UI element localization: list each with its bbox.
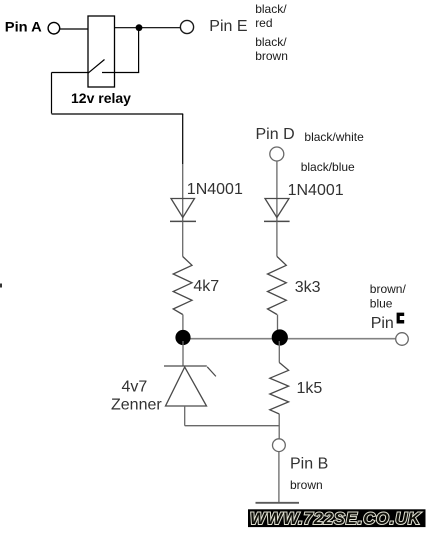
svg-text:Pin B: Pin B (290, 456, 328, 473)
diode D1 1N4001 (170, 199, 196, 222)
wire down to D1 (black part) (182, 114, 184, 164)
resistor value label 1k5 (297, 380, 323, 397)
svg-text:1N4001: 1N4001 (187, 181, 243, 198)
svg-text:brown: brown (255, 49, 288, 63)
zener diode ZD1 cathode bar (164, 366, 216, 376)
svg-text:Pin A: Pin A (5, 18, 42, 34)
svg-text:black/white: black/white (304, 130, 364, 144)
svg-text:Pin: Pin (371, 315, 394, 332)
wire relay to Pin E (115, 27, 181, 29)
node Pin A label (5, 18, 42, 34)
relay switch contact arm (88, 60, 105, 74)
terminal Pin D (270, 147, 284, 161)
zener diode ZD1 triangle (166, 367, 207, 406)
wire node to R 1k5 (278, 341, 280, 363)
diode D2 1N4001 (264, 199, 290, 222)
svg-text:brown/: brown/ (370, 282, 407, 296)
svg-text:red: red (255, 16, 272, 30)
resistor R 3k3 (268, 257, 287, 315)
wire label black/brown (255, 35, 288, 63)
svg-text:4v7: 4v7 (122, 378, 148, 395)
wire label black/blue (301, 160, 355, 174)
terminal Pin E (180, 20, 193, 33)
wire D2 to R 3k3 (276, 221, 278, 256)
wire zener down (184, 406, 186, 426)
svg-text:WWW.722SE.CO.UK: WWW.722SE.CO.UK (250, 510, 421, 528)
relay K1 body (88, 16, 115, 87)
wire label black/white (304, 130, 364, 144)
resistor value label 3k3 (295, 279, 321, 296)
terminal Pin C (396, 333, 409, 346)
wire switch up to Pin E line (138, 28, 140, 73)
svg-text:black/: black/ (255, 2, 287, 16)
node Pin B label (290, 456, 328, 473)
node Pin E label (209, 18, 247, 35)
wire zener bottom to Pin B branch (185, 425, 280, 427)
wire 3k3 to node (277, 315, 279, 340)
wire 1k5 to Pin B (278, 414, 280, 439)
svg-text:Pin E: Pin E (209, 18, 247, 35)
wire down to D1 (gray part) (182, 164, 184, 221)
wire label brown (290, 478, 323, 492)
svg-text:blue: blue (370, 297, 393, 311)
zener value label 4v7 Zenner (111, 378, 162, 413)
resistor value label 4k7 (193, 278, 219, 295)
terminal Pin A (48, 22, 60, 34)
svg-text:Zenner: Zenner (111, 397, 162, 414)
svg-text:12v relay: 12v relay (71, 90, 131, 106)
node Pin C label (371, 313, 405, 332)
resistor R 4k7 (173, 257, 192, 315)
wire label black/red (255, 2, 287, 30)
wire node to zener (182, 341, 184, 366)
svg-text:Pin D: Pin D (256, 126, 295, 143)
relay switch right contact wire (102, 72, 139, 74)
wire main node to Pin C (183, 338, 396, 340)
diode D2 value label 1N4001 (288, 182, 344, 199)
svg-text:1k5: 1k5 (297, 380, 323, 397)
watermark www.722se.co.uk (248, 509, 426, 528)
junction node left (175, 330, 190, 345)
svg-text:3k3: 3k3 (295, 279, 321, 296)
junction dot (136, 24, 143, 31)
resistor R 1k5 (270, 363, 289, 415)
terminal Pin B (273, 439, 286, 452)
node Pin D label (256, 126, 295, 143)
wire Pin B to ground (278, 452, 280, 503)
ground (256, 502, 300, 504)
wire D1 to R 4k7 (182, 221, 184, 256)
relay switch left wire (52, 72, 89, 74)
wire horizontal to diode branch (52, 113, 184, 115)
wire relay left down (51, 73, 53, 114)
wire label brown/blue (370, 282, 407, 311)
wire 4k7 to node (182, 315, 184, 340)
svg-text:1N4001: 1N4001 (288, 182, 344, 199)
svg-text:4k7: 4k7 (193, 278, 219, 295)
wire Pin D to D2 (276, 161, 278, 221)
svg-text:black/: black/ (255, 35, 287, 49)
relay value label 12v relay (71, 90, 131, 106)
junction node right (272, 329, 288, 345)
svg-text:black/blue: black/blue (301, 160, 355, 174)
diode D1 value label 1N4001 (187, 181, 243, 198)
svg-text:brown: brown (290, 478, 323, 492)
wire Pin A to relay (60, 28, 88, 30)
stray mark left edge (0, 284, 2, 288)
